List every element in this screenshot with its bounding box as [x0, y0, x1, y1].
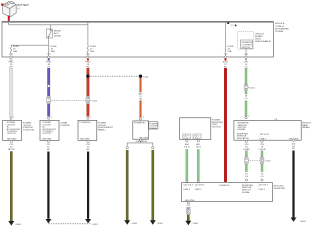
svg-text:POWER B+: POWER B+: [134, 123, 146, 125]
svg-text:INVERTER: INVERTER: [274, 188, 285, 190]
svg-text:(LAC+BUS): (LAC+BUS): [136, 140, 148, 143]
svg-text:GROUND: GROUND: [42, 139, 52, 141]
svg-text:20A: 20A: [90, 50, 94, 53]
svg-text:(+): (+): [18, 8, 21, 10]
svg-text:G301: G301: [92, 224, 98, 226]
svg-text:(REAR): (REAR): [302, 126, 310, 129]
svg-text:C116: C116: [250, 87, 256, 89]
svg-text:OUTPUT: OUTPUT: [43, 133, 53, 135]
svg-text:G303: G303: [300, 221, 306, 223]
svg-text:G302: G302: [157, 223, 163, 225]
svg-text:LG/BK: LG/BK: [243, 149, 250, 151]
svg-text:110 VOLT: 110 VOLT: [195, 184, 205, 186]
svg-text:110 VOLT: 110 VOLT: [260, 134, 270, 136]
svg-text:LINE 2: LINE 2: [195, 189, 202, 191]
svg-text:PANEL): PANEL): [98, 129, 106, 132]
svg-text:110 VOLT: 110 VOLT: [258, 184, 268, 186]
svg-text:S144: S144: [143, 77, 149, 79]
svg-text:G300: G300: [16, 224, 22, 226]
svg-text:LG/OR: LG/OR: [259, 149, 266, 151]
svg-text:LINE 1: LINE 1: [258, 189, 265, 191]
svg-text:CONSOLE): CONSOLE): [23, 130, 35, 132]
svg-text:OR: OR: [139, 98, 143, 100]
svg-text:INDICATOR: INDICATOR: [237, 137, 249, 140]
svg-text:SIGNAL: SIGNAL: [242, 191, 251, 194]
svg-text:14LG: 14LG: [196, 146, 202, 148]
svg-text:20A: 20A: [51, 50, 55, 53]
svg-text:BK/TN: BK/TN: [8, 149, 15, 151]
svg-text:OUTPUT: OUTPUT: [7, 133, 17, 135]
svg-text:G302: G302: [193, 223, 199, 225]
svg-text:POWER B+: POWER B+: [80, 122, 92, 124]
svg-text:LINE 1: LINE 1: [183, 189, 190, 191]
svg-text:OUTLET): OUTLET): [212, 127, 222, 129]
svg-text:LG: LG: [245, 176, 248, 178]
svg-text:BATTERY: BATTERY: [18, 3, 30, 7]
svg-text:20A: 20A: [228, 50, 232, 53]
svg-text:LINE 2: LINE 2: [194, 138, 201, 140]
svg-text:110 VOLT: 110 VOLT: [183, 184, 193, 186]
svg-text:14LG: 14LG: [184, 146, 190, 148]
svg-text:POWER: POWER: [275, 31, 284, 33]
svg-text:SERVICEABLE): SERVICEABLE): [255, 40, 271, 43]
svg-text:DELAY: DELAY: [54, 35, 62, 38]
svg-text:TOTALLY: TOTALLY: [275, 25, 285, 28]
svg-text:SIGNAL: SIGNAL: [237, 128, 246, 131]
svg-text:FUSED B+: FUSED B+: [219, 185, 230, 187]
svg-text:G302: G302: [132, 223, 138, 225]
svg-text:20A: 20A: [13, 50, 17, 53]
svg-text:(REAR): (REAR): [149, 127, 157, 130]
svg-text:LIGHTER: LIGHTER: [60, 125, 70, 127]
svg-text:GROUND: GROUND: [185, 200, 195, 202]
svg-text:LG: LG: [261, 176, 264, 178]
svg-text:C316: C316: [265, 161, 271, 163]
svg-text:LG: LG: [245, 98, 248, 100]
svg-text:LINE 2: LINE 2: [260, 139, 267, 141]
svg-text:C105: C105: [92, 101, 98, 103]
svg-text:INTEGRATED: INTEGRATED: [275, 27, 289, 30]
